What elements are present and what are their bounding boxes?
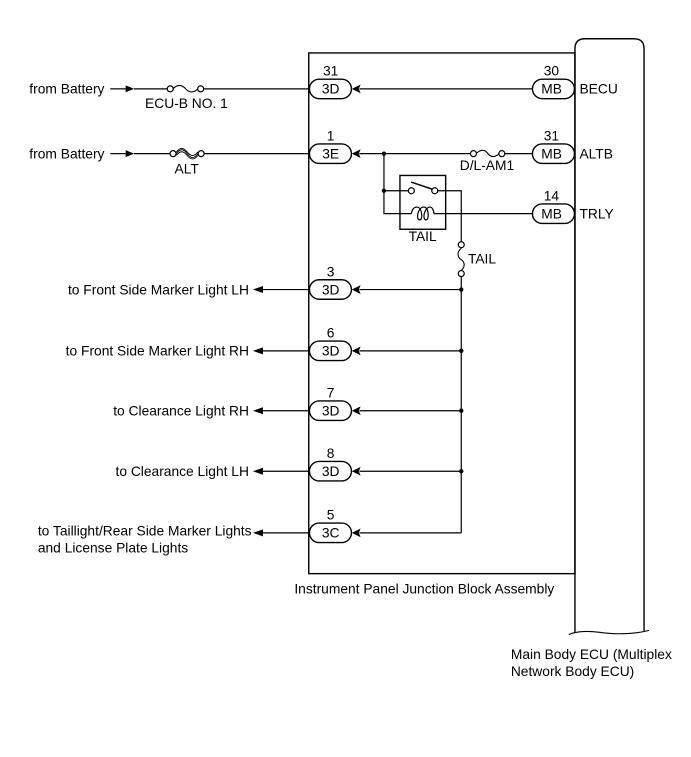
svg-text:3E: 3E xyxy=(322,146,339,161)
svg-text:TAIL: TAIL xyxy=(468,251,496,266)
svg-text:MB: MB xyxy=(541,207,562,222)
svg-text:Instrument Panel Junction Bloc: Instrument Panel Junction Block Assembly xyxy=(294,581,554,596)
svg-text:7: 7 xyxy=(327,386,335,401)
svg-text:ALT: ALT xyxy=(175,162,200,177)
svg-text:ECU-B NO. 1: ECU-B NO. 1 xyxy=(145,96,228,111)
svg-text:from Battery: from Battery xyxy=(29,82,104,97)
svg-text:31: 31 xyxy=(544,129,559,144)
svg-text:TAIL: TAIL xyxy=(409,229,437,244)
svg-text:from Battery: from Battery xyxy=(29,146,104,161)
svg-text:Main Body ECU (Multiplex: Main Body ECU (Multiplex xyxy=(511,647,672,662)
svg-text:D/L-AM1: D/L-AM1 xyxy=(460,158,514,173)
svg-text:3D: 3D xyxy=(322,82,340,97)
svg-text:31: 31 xyxy=(323,64,338,79)
svg-text:Network Body ECU): Network Body ECU) xyxy=(511,664,634,679)
svg-text:TRLY: TRLY xyxy=(579,207,613,222)
svg-text:MB: MB xyxy=(541,146,562,161)
svg-text:to Front Side Marker Light LH: to Front Side Marker Light LH xyxy=(68,282,249,297)
svg-text:3D: 3D xyxy=(322,282,340,297)
svg-text:14: 14 xyxy=(544,189,560,204)
svg-text:MB: MB xyxy=(541,82,562,97)
svg-text:3D: 3D xyxy=(322,344,340,359)
svg-text:1: 1 xyxy=(327,129,335,144)
svg-text:to Front Side Marker Light RH: to Front Side Marker Light RH xyxy=(66,344,249,359)
svg-text:8: 8 xyxy=(327,446,335,461)
svg-text:ALTB: ALTB xyxy=(579,146,612,161)
svg-text:6: 6 xyxy=(327,326,335,341)
svg-text:to Clearance Light LH: to Clearance Light LH xyxy=(115,464,248,479)
svg-text:5: 5 xyxy=(327,508,335,523)
svg-text:3C: 3C xyxy=(322,526,340,541)
svg-text:3D: 3D xyxy=(322,464,340,479)
svg-text:3D: 3D xyxy=(322,404,340,419)
svg-text:30: 30 xyxy=(544,64,560,79)
svg-text:to Clearance Light RH: to Clearance Light RH xyxy=(113,404,249,419)
svg-text:and License Plate Lights: and License Plate Lights xyxy=(38,541,188,556)
svg-text:BECU: BECU xyxy=(579,82,617,97)
svg-text:3: 3 xyxy=(327,264,335,279)
svg-text:to Taillight/Rear Side Marker: to Taillight/Rear Side Marker Lights xyxy=(38,524,252,539)
